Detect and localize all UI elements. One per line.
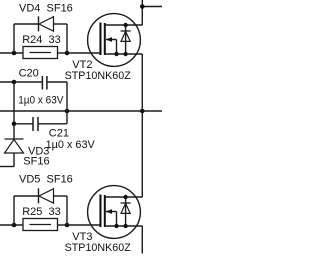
transistor VT3 channel bar bbox=[104, 195, 106, 227]
wire C20 right bbox=[47, 81, 67, 83]
wire VT3 source internal bbox=[105, 225, 142, 227]
svg-text:STP10NK60Z: STP10NK60Z bbox=[65, 242, 131, 254]
node VT2 body diode bottom bbox=[123, 52, 127, 56]
wire junction to gate VT3 bbox=[67, 224, 100, 226]
svg-text:STP10NK60Z: STP10NK60Z bbox=[65, 70, 131, 82]
transistor VT2 gate bar bbox=[99, 23, 101, 56]
node VT3 substrate-source junction bbox=[114, 224, 118, 228]
wire VD4 anode-side horizontal bbox=[14, 23, 39, 25]
svg-text:SF16: SF16 bbox=[23, 156, 49, 168]
diode VT3 body triangle bbox=[121, 203, 130, 213]
wire C20 drop to rail bbox=[66, 82, 68, 111]
wire VD4 left riser bbox=[13, 24, 15, 53]
node junction gate1-right bbox=[65, 51, 70, 56]
node junction gate2-right bbox=[65, 223, 70, 228]
capacitor C21 bbox=[32, 117, 34, 131]
wire VD5 anode-side horizontal bbox=[14, 195, 39, 197]
wire VD4 right riser bbox=[66, 24, 68, 53]
diode VT2 body triangle bbox=[121, 31, 130, 41]
wire gate net VT3 left segment bbox=[0, 224, 23, 226]
resistor R24 bbox=[23, 47, 58, 59]
node VT2 body diode top bbox=[123, 23, 127, 27]
wire R25 right to junction bbox=[58, 224, 68, 226]
node VT3 body diode bottom bbox=[123, 224, 127, 228]
svg-text:1µ0 x 63V: 1µ0 x 63V bbox=[18, 94, 64, 106]
diode VD3 cathode bar bbox=[5, 138, 24, 140]
wire C21 riser to rail bbox=[66, 111, 68, 124]
node junction gate1-left bbox=[12, 51, 17, 56]
diode VT2 body diode vertical bbox=[125, 25, 127, 54]
diode VT3 body diode vertical bbox=[125, 197, 127, 226]
op circle transistor VT3 outline bbox=[88, 186, 141, 239]
wire VT2 drain internal bbox=[105, 24, 142, 26]
diode VT2 body cathode bar bbox=[121, 30, 131, 32]
wire R24 right to junction bbox=[58, 52, 68, 54]
wire VT2 source internal bbox=[105, 53, 142, 55]
wire gate net VT2 left segment bbox=[0, 52, 23, 54]
capacitor C20 bbox=[41, 76, 43, 90]
wire VD3 anode to left edge bbox=[0, 166, 14, 168]
node VT3 body diode top bbox=[123, 195, 127, 199]
wire VT3 source drop bbox=[141, 226, 143, 254]
wire top rail to right edge bbox=[142, 6, 162, 8]
diode VD4 cathode bar bbox=[38, 16, 40, 31]
node mid rail right junction bbox=[140, 109, 145, 114]
wire left riser C20 to VD3 bbox=[13, 82, 15, 139]
wire VT3 drain internal bbox=[105, 196, 142, 198]
wire VT2 substrate to source bbox=[116, 40, 118, 55]
op circle transistor VT2 outline bbox=[88, 14, 141, 67]
svg-text:C21: C21 bbox=[49, 128, 69, 140]
diode VD5 cathode bar bbox=[38, 188, 40, 203]
transistor VT3 gate bar bbox=[99, 195, 101, 228]
wire VD5 right horizontal bbox=[54, 195, 68, 197]
svg-text:C20: C20 bbox=[19, 68, 39, 80]
transistor VT2 channel bar bbox=[104, 23, 106, 55]
svg-text:R24 33: R24 33 bbox=[22, 34, 61, 46]
wire C21 right bbox=[38, 123, 67, 125]
wire junction to gate VT2 bbox=[67, 52, 100, 54]
transistor VT2 substrate arrow bbox=[106, 39, 117, 41]
node C21 left junction bbox=[12, 122, 17, 127]
wire VD5 left riser bbox=[13, 196, 15, 225]
resistor R24 inner bar bbox=[30, 52, 52, 54]
resistor R25 bbox=[23, 219, 58, 231]
svg-text:R25 33: R25 33 bbox=[22, 206, 61, 218]
wire VT2 drain riser to top bbox=[141, 0, 143, 25]
node mid rail capacitor junction bbox=[65, 109, 70, 114]
diode VD5 triangle bbox=[39, 189, 54, 204]
wire mid rail bbox=[0, 110, 162, 112]
svg-text:VD5 SF16: VD5 SF16 bbox=[19, 174, 73, 186]
wire VD5 right riser bbox=[66, 196, 68, 225]
wire VD3 anode down bbox=[13, 153, 15, 167]
resistor R25 inner bar bbox=[30, 224, 52, 226]
diode VD3 triangle bbox=[5, 140, 24, 154]
diode VT3 body cathode bar bbox=[121, 202, 131, 204]
svg-text:VD4 SF16: VD4 SF16 bbox=[19, 3, 73, 15]
wire C20 net left bbox=[0, 81, 42, 83]
node junction gate2-left bbox=[12, 223, 17, 228]
wire VT2 source to mid rail and VT3 drain bbox=[141, 54, 143, 197]
node top-right junction bbox=[140, 4, 145, 9]
wire VD4 right horizontal bbox=[54, 23, 68, 25]
transistor VT3 substrate arrow bbox=[106, 211, 117, 213]
diode VD4 triangle bbox=[39, 17, 54, 32]
wire VT3 substrate to source bbox=[116, 212, 118, 227]
node VT2 substrate-source junction bbox=[114, 52, 118, 56]
svg-text:1µ0 x 63V: 1µ0 x 63V bbox=[46, 139, 96, 151]
node C20 left junction bbox=[12, 80, 17, 85]
wire C21 left bbox=[14, 123, 33, 125]
